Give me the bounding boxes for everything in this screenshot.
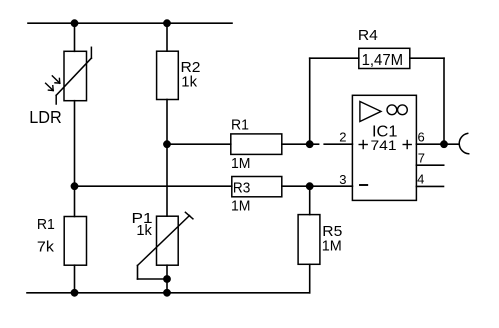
label IC1 741 xyxy=(371,124,398,153)
label R3 1M xyxy=(231,179,251,214)
junction top rail LDR xyxy=(71,19,79,27)
wire top supply rail xyxy=(28,22,232,24)
junction output node xyxy=(440,140,448,148)
wire node D down to R5 xyxy=(309,186,311,214)
label P1 1k xyxy=(132,210,153,239)
wire node B to R1 1M xyxy=(167,143,231,145)
wire node C to pin 2 (with gap) xyxy=(310,143,353,145)
resistor R5 1M body xyxy=(298,215,320,265)
junction node B xyxy=(163,140,171,148)
resistor R1 1M body xyxy=(231,134,282,155)
junction node D xyxy=(306,182,314,190)
junction bottom rail P1 branch xyxy=(163,289,171,297)
potentiometer P1 body xyxy=(138,212,193,265)
junction node C xyxy=(306,140,314,148)
svg-text:7k: 7k xyxy=(37,238,55,255)
op-amp plus sign right xyxy=(403,141,411,149)
svg-text:4: 4 xyxy=(417,171,424,186)
label R4 value xyxy=(358,27,403,69)
wire node B down to P1 xyxy=(166,144,168,216)
wire feedback right vertical xyxy=(443,58,445,144)
LDR light arrow 1 xyxy=(52,76,60,83)
wire pin 7 stub xyxy=(416,164,443,166)
wire pin 4 stub xyxy=(416,185,443,187)
svg-text:1M: 1M xyxy=(231,198,251,215)
junction bottom rail LDR branch xyxy=(71,289,79,297)
resistor R3 1M body xyxy=(232,177,282,197)
wire output to earphone xyxy=(444,143,459,145)
svg-text:R1: R1 xyxy=(37,216,55,233)
svg-text:7: 7 xyxy=(418,150,425,165)
op-amp IC1 box xyxy=(352,95,416,200)
label R5 1M xyxy=(322,223,343,254)
op-amp triangle symbol xyxy=(360,102,381,122)
wire LDR to node A xyxy=(74,101,76,187)
svg-text:6: 6 xyxy=(418,130,425,145)
wire R1 to bottom rail xyxy=(74,265,76,293)
resistor R2 1k body xyxy=(157,51,179,99)
svg-text:R4: R4 xyxy=(358,27,378,44)
wire R3 to node D xyxy=(282,185,310,187)
svg-text:LDR: LDR xyxy=(29,107,62,127)
svg-text:1M: 1M xyxy=(322,237,342,254)
resistor R4 1,47M body xyxy=(359,48,410,68)
junction node A xyxy=(71,182,79,190)
wire R1 1M to node C xyxy=(282,143,310,145)
wire pin 6 output xyxy=(416,143,444,145)
svg-text:R3: R3 xyxy=(233,179,250,196)
label R2 1k xyxy=(181,59,201,90)
wire R2 to node B xyxy=(166,100,168,145)
wire node A to R3 xyxy=(75,185,232,187)
wire node A down to R1 xyxy=(74,186,76,216)
resistor R1 7k body xyxy=(64,217,86,266)
earphone arc xyxy=(459,133,468,153)
svg-text:1k: 1k xyxy=(136,222,152,239)
label R1 1M xyxy=(231,116,251,172)
junction P1 wiper xyxy=(163,275,171,283)
svg-text:2: 2 xyxy=(339,130,346,145)
label R1 7k xyxy=(37,216,55,255)
wire feedback left vertical xyxy=(309,58,311,144)
wire R2 top drop xyxy=(166,23,168,51)
svg-text:1M: 1M xyxy=(231,155,251,172)
LDR photoresistor body xyxy=(56,47,91,104)
wire P1 bottom to rail xyxy=(166,265,168,293)
junction top rail R2 xyxy=(163,19,171,27)
op-amp plus sign left xyxy=(359,141,367,149)
svg-text:1k: 1k xyxy=(181,73,197,90)
wire feedback top right xyxy=(410,57,444,59)
svg-text:1,47M: 1,47M xyxy=(362,52,404,69)
wire node D to pin 3 xyxy=(310,185,353,187)
wire bottom rail xyxy=(27,292,310,294)
svg-text:3: 3 xyxy=(339,172,346,187)
svg-text:741: 741 xyxy=(371,137,397,153)
wire LDR top drop xyxy=(74,23,76,51)
wire R5 to bottom rail xyxy=(309,264,311,293)
op-amp minus sign pin 3 xyxy=(360,184,367,186)
op-amp infinity symbol xyxy=(387,105,407,115)
LDR light arrow 2 xyxy=(46,83,54,90)
wire P1 wiper tail xyxy=(138,266,168,280)
svg-text:R1: R1 xyxy=(231,116,249,133)
wire feedback top left xyxy=(310,57,359,59)
